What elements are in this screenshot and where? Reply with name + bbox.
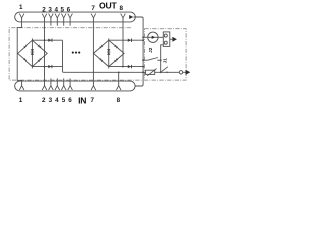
svg-text:6: 6 [68, 97, 72, 104]
svg-text:8: 8 [117, 97, 121, 104]
svg-text:7: 7 [91, 5, 95, 12]
svg-text:3: 3 [49, 97, 53, 104]
svg-text:OUT: OUT [99, 1, 117, 11]
svg-text:J1: J1 [163, 58, 168, 64]
svg-text:4: 4 [55, 97, 59, 104]
svg-text:7: 7 [91, 97, 95, 104]
svg-text:5: 5 [61, 7, 65, 14]
svg-text:6: 6 [67, 7, 71, 14]
svg-text:IN: IN [78, 96, 86, 106]
svg-text:1: 1 [19, 4, 23, 11]
svg-text:3: 3 [48, 7, 52, 14]
svg-text:2: 2 [42, 97, 46, 104]
svg-text:1: 1 [19, 97, 23, 104]
svg-text:4: 4 [54, 7, 58, 14]
svg-text:J2: J2 [148, 47, 153, 53]
svg-text:2: 2 [42, 7, 46, 14]
svg-text:5: 5 [62, 97, 66, 104]
svg-text:8: 8 [120, 5, 124, 12]
